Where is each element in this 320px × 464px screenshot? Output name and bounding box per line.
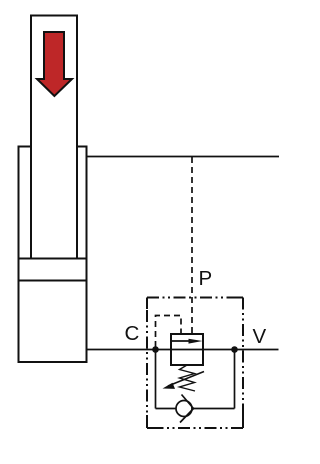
svg-text:P: P (199, 267, 213, 290)
svg-text:V: V (253, 325, 267, 348)
svg-text:C: C (125, 322, 140, 345)
